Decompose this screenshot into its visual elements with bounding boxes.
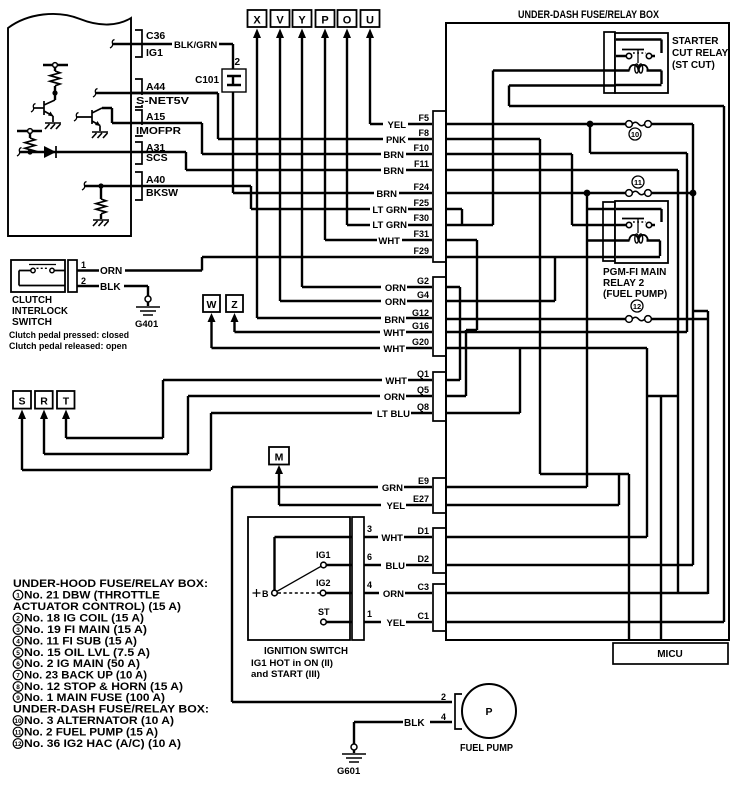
svg-text:Q5: Q5 — [417, 385, 429, 395]
svg-text:YEL: YEL — [388, 120, 407, 131]
svg-text:F30: F30 — [413, 213, 429, 223]
svg-text:2: 2 — [81, 276, 86, 286]
svg-text:ST: ST — [318, 607, 330, 617]
svg-text:BRN: BRN — [383, 150, 404, 161]
svg-text:F8: F8 — [418, 128, 429, 138]
svg-text:12: 12 — [14, 741, 22, 748]
svg-text:IGNITION SWITCH: IGNITION SWITCH — [264, 645, 348, 657]
svg-text:5: 5 — [16, 650, 20, 657]
svg-text:C3: C3 — [417, 582, 429, 592]
svg-text:YEL: YEL — [387, 501, 406, 512]
svg-text:FUEL PUMP: FUEL PUMP — [460, 742, 513, 754]
svg-text:No. 11 FI SUB (15 A): No. 11 FI SUB (15 A) — [24, 636, 137, 648]
svg-text:F5: F5 — [418, 113, 429, 123]
svg-text:M: M — [275, 452, 284, 464]
svg-text:F10: F10 — [413, 143, 429, 153]
svg-text:MICU: MICU — [657, 649, 683, 660]
svg-text:STARTER: STARTER — [672, 36, 719, 47]
svg-text:ORN: ORN — [385, 297, 406, 308]
svg-text:G401: G401 — [135, 319, 159, 330]
svg-text:O: O — [343, 15, 352, 27]
svg-text:BRN: BRN — [383, 166, 404, 177]
svg-text:T: T — [63, 396, 70, 408]
svg-text:ORN: ORN — [100, 266, 122, 277]
svg-text:4: 4 — [367, 580, 372, 590]
svg-text:C1: C1 — [417, 611, 429, 621]
svg-text:UNDER-HOOD FUSE/RELAY BOX:: UNDER-HOOD FUSE/RELAY BOX: — [13, 578, 208, 590]
svg-text:WHT: WHT — [385, 376, 407, 387]
svg-text:1: 1 — [81, 260, 86, 270]
svg-text:F25: F25 — [413, 198, 429, 208]
svg-text:3: 3 — [367, 524, 372, 534]
svg-text:F11: F11 — [414, 159, 429, 169]
svg-text:F29: F29 — [413, 246, 429, 256]
svg-text:E9: E9 — [418, 476, 429, 486]
svg-text:ORN: ORN — [385, 283, 406, 294]
svg-text:ORN: ORN — [384, 392, 405, 403]
svg-text:A15: A15 — [146, 111, 165, 123]
svg-text:S-NET5V: S-NET5V — [136, 95, 189, 107]
svg-text:and START (III): and START (III) — [251, 669, 320, 680]
svg-text:1: 1 — [16, 593, 20, 600]
svg-text:RELAY 2: RELAY 2 — [603, 278, 645, 289]
svg-text:WHT: WHT — [383, 344, 405, 355]
svg-text:4: 4 — [16, 639, 20, 646]
svg-text:No. 23 BACK UP (10 A): No. 23 BACK UP (10 A) — [24, 670, 147, 682]
svg-text:WHT: WHT — [383, 328, 405, 339]
svg-text:8: 8 — [16, 684, 20, 691]
svg-text:LT GRN: LT GRN — [372, 205, 407, 216]
svg-text:SCS: SCS — [146, 152, 168, 164]
svg-text:U: U — [366, 15, 374, 27]
svg-text:Q8: Q8 — [417, 402, 429, 412]
svg-text:X: X — [253, 15, 261, 27]
svg-text:CUT RELAY: CUT RELAY — [672, 48, 729, 59]
svg-text:B: B — [262, 589, 269, 599]
svg-text:No. 2 IG MAIN (50 A): No. 2 IG MAIN (50 A) — [24, 658, 140, 670]
svg-text:(ST CUT): (ST CUT) — [672, 60, 715, 71]
svg-text:PGM-FI MAIN: PGM-FI MAIN — [603, 267, 666, 278]
svg-text:F31: F31 — [413, 229, 429, 239]
svg-text:G12: G12 — [412, 308, 429, 318]
svg-text:(FUEL PUMP): (FUEL PUMP) — [603, 289, 667, 300]
svg-text:GRN: GRN — [382, 483, 403, 494]
svg-text:WHT: WHT — [381, 533, 403, 544]
svg-text:C36: C36 — [146, 30, 165, 42]
svg-text:UNDER-DASH FUSE/RELAY BOX:: UNDER-DASH FUSE/RELAY BOX: — [13, 704, 209, 716]
svg-text:3: 3 — [16, 627, 20, 634]
svg-text:6: 6 — [367, 552, 372, 562]
svg-text:D1: D1 — [417, 526, 429, 536]
svg-text:CLUTCH: CLUTCH — [12, 295, 52, 306]
svg-text:BLU: BLU — [385, 561, 405, 572]
svg-text:BLK: BLK — [100, 282, 121, 293]
svg-text:Clutch pedal pressed: closed: Clutch pedal pressed: closed — [9, 330, 129, 341]
svg-text:UNDER-DASH FUSE/RELAY BOX: UNDER-DASH FUSE/RELAY BOX — [518, 9, 660, 21]
svg-text:IG2: IG2 — [316, 578, 331, 588]
svg-text:G20: G20 — [412, 337, 429, 347]
svg-text:S: S — [18, 396, 25, 408]
svg-text:PNK: PNK — [386, 135, 406, 146]
svg-text:IMOFPR: IMOFPR — [136, 125, 181, 137]
svg-text:No. 3 ALTERNATOR (10 A): No. 3 ALTERNATOR (10 A) — [24, 715, 174, 727]
svg-text:4: 4 — [441, 712, 446, 722]
svg-text:LT BLU: LT BLU — [377, 409, 410, 420]
svg-text:BRN: BRN — [376, 189, 397, 200]
svg-text:W: W — [207, 299, 217, 311]
svg-text:No. 18 IG COIL (15 A): No. 18 IG COIL (15 A) — [24, 613, 144, 625]
svg-text:7: 7 — [16, 673, 20, 680]
svg-text:R: R — [40, 396, 48, 408]
svg-text:D2: D2 — [417, 554, 429, 564]
svg-text:G16: G16 — [412, 321, 429, 331]
svg-text:P: P — [485, 706, 492, 718]
svg-text:A44: A44 — [146, 81, 165, 93]
svg-text:BLK/GRN: BLK/GRN — [174, 40, 217, 51]
svg-text:9: 9 — [16, 695, 20, 702]
svg-text:10: 10 — [631, 130, 639, 139]
svg-text:11: 11 — [634, 178, 642, 187]
svg-text:2: 2 — [235, 57, 241, 68]
svg-text:No. 36 IG2 HAC (A/C) (10 A): No. 36 IG2 HAC (A/C) (10 A) — [24, 738, 181, 750]
svg-text:No. 19 FI MAIN (15 A): No. 19 FI MAIN (15 A) — [24, 624, 147, 636]
svg-text:12: 12 — [633, 302, 641, 311]
svg-text:2: 2 — [16, 616, 20, 623]
svg-text:WHT: WHT — [378, 236, 400, 247]
svg-text:1: 1 — [367, 609, 372, 619]
svg-text:C101: C101 — [195, 75, 219, 86]
svg-text:V: V — [276, 15, 284, 27]
svg-text:BLK: BLK — [404, 718, 425, 729]
svg-text:Z: Z — [231, 299, 238, 311]
svg-text:6: 6 — [16, 661, 20, 668]
svg-text:IG1 HOT in ON (II): IG1 HOT in ON (II) — [251, 658, 333, 669]
svg-text:11: 11 — [15, 730, 22, 737]
svg-text:Q1: Q1 — [417, 369, 429, 379]
svg-text:No. 2 FUEL PUMP (15 A): No. 2 FUEL PUMP (15 A) — [24, 727, 158, 739]
svg-text:IG1: IG1 — [146, 47, 163, 59]
svg-text:LT GRN: LT GRN — [372, 220, 407, 231]
svg-text:A40: A40 — [146, 174, 165, 186]
svg-text:F24: F24 — [413, 182, 429, 192]
svg-text:Clutch pedal released: open: Clutch pedal released: open — [9, 341, 127, 352]
svg-text:ORN: ORN — [383, 589, 404, 600]
svg-text:10: 10 — [14, 718, 22, 725]
svg-text:YEL: YEL — [387, 618, 406, 629]
svg-text:G4: G4 — [417, 290, 429, 300]
svg-text:2: 2 — [441, 692, 446, 702]
svg-text:No. 1 MAIN FUSE (100 A): No. 1 MAIN FUSE (100 A) — [24, 692, 165, 704]
svg-text:G601: G601 — [337, 766, 361, 777]
svg-text:P: P — [321, 15, 328, 27]
svg-text:BRN: BRN — [384, 315, 405, 326]
svg-text:IG1: IG1 — [316, 550, 331, 560]
svg-text:No. 21 DBW (THROTTLE: No. 21 DBW (THROTTLE — [24, 590, 160, 602]
svg-text:ACTUATOR CONTROL) (15 A): ACTUATOR CONTROL) (15 A) — [13, 601, 181, 613]
svg-text:BKSW: BKSW — [146, 187, 178, 199]
svg-text:Y: Y — [298, 15, 306, 27]
svg-text:G2: G2 — [417, 276, 429, 286]
svg-text:E27: E27 — [413, 494, 429, 504]
svg-text:SWITCH: SWITCH — [12, 317, 52, 328]
svg-text:INTERLOCK: INTERLOCK — [12, 306, 69, 317]
